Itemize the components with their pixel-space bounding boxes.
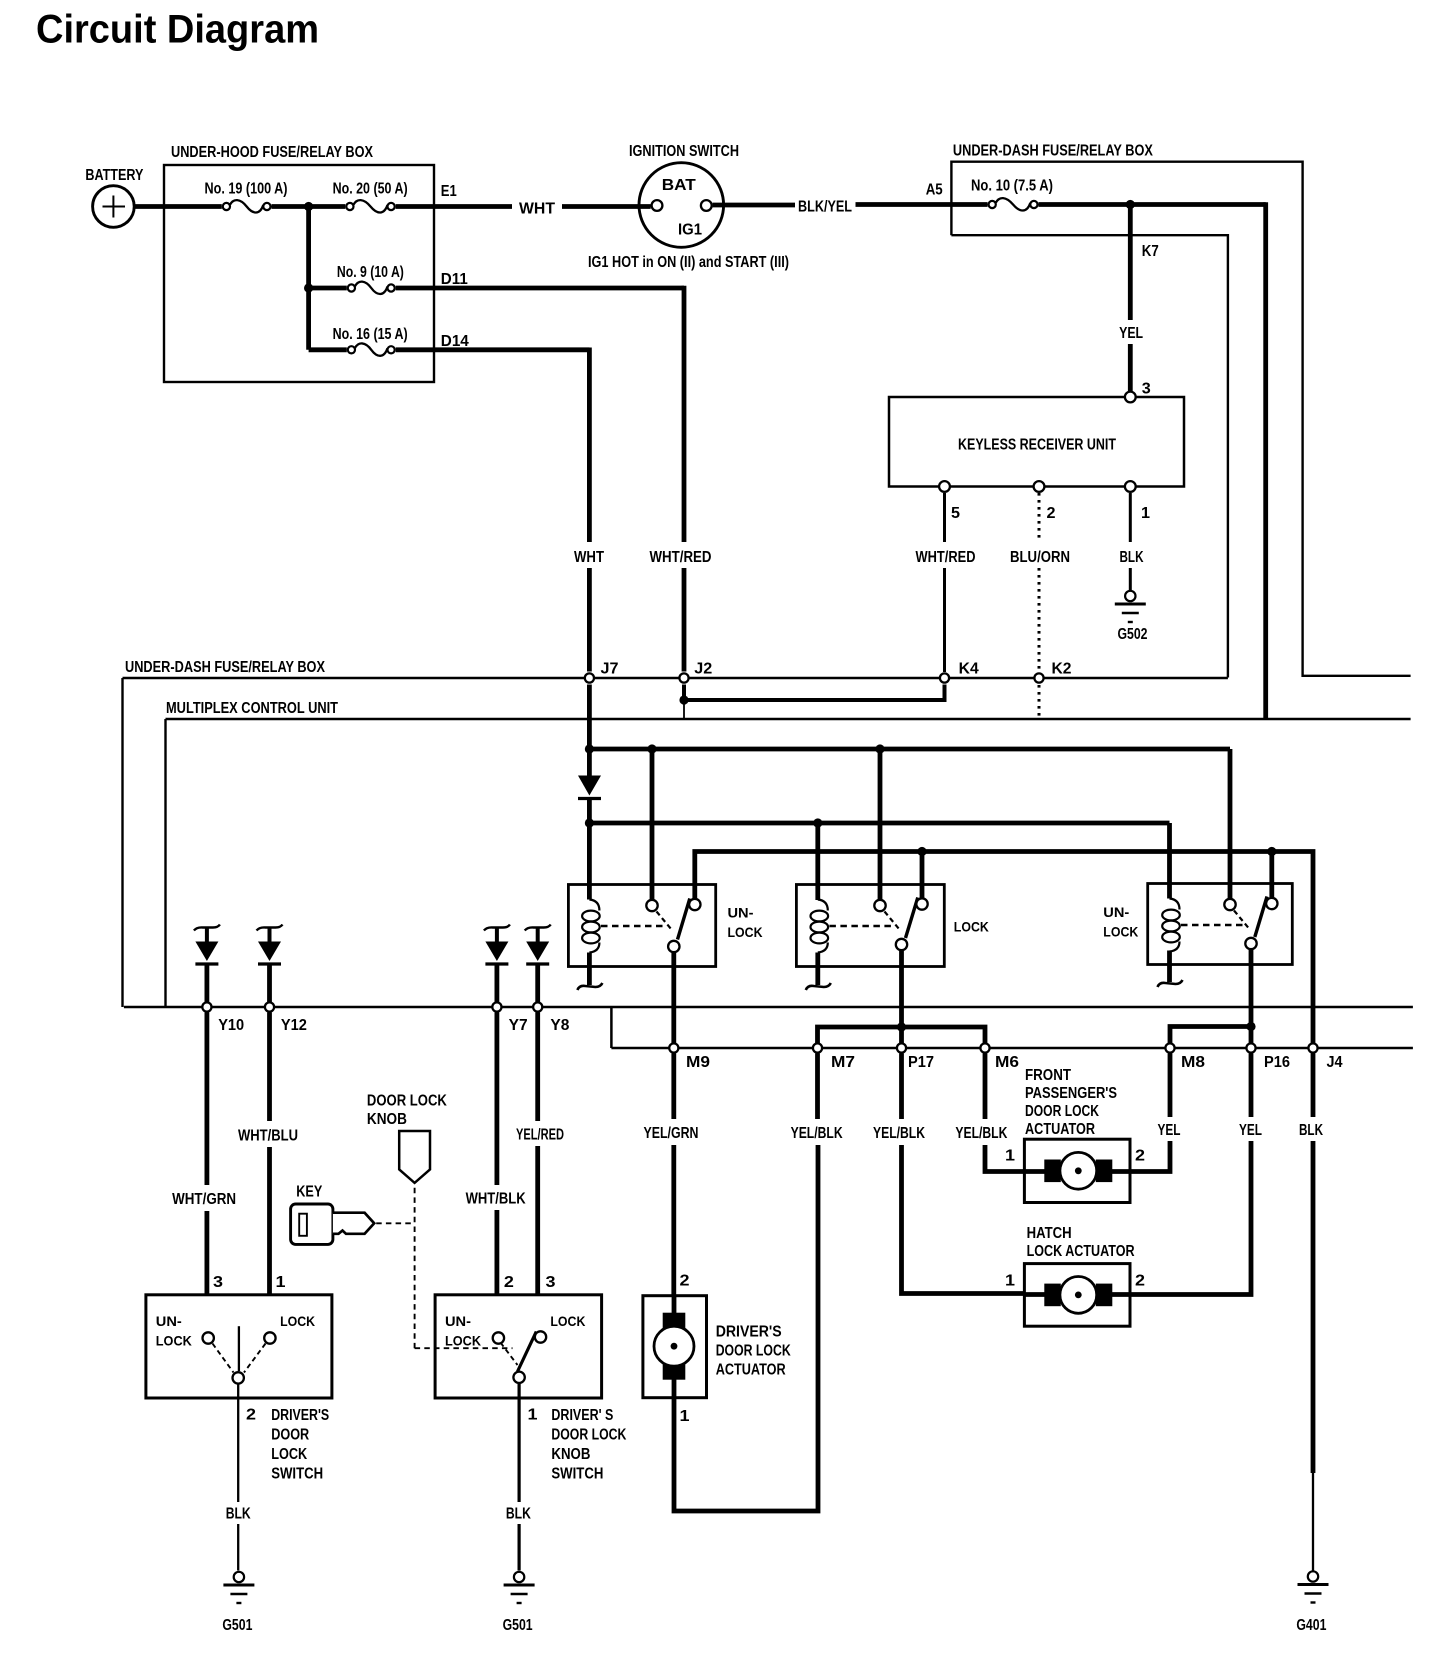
svg-text:WHT/RED: WHT/RED [916,549,976,566]
relay UNLOCK-1 mid contact [646,900,657,911]
svg-text:J4: J4 [1327,1054,1343,1071]
svg-text:No. 19 (100 A): No. 19 (100 A) [205,181,288,198]
junction dot bus851 relay2 right [917,847,926,856]
svg-text:UNDER-HOOD FUSE/RELAY BOX: UNDER-HOOD FUSE/RELAY BOX [171,144,374,161]
wire trunk to fuse 9 [309,286,347,291]
svg-text:D11: D11 [441,271,468,288]
relay UNLOCK-1 arm [678,899,690,940]
chassis ground relay2 [806,983,831,990]
under-dash box outline top-right [951,162,1410,676]
svg-text:YEL: YEL [1158,1122,1181,1139]
junction dot K7 tap [1126,200,1135,209]
connector K4 [940,673,949,682]
connector M6 [980,1043,989,1052]
svg-text:UN-: UN- [728,906,754,921]
svg-text:K4: K4 [959,661,979,678]
relay UNLOCK-2 right contact [1266,898,1277,909]
hatch lock actuator motor [1024,1292,1046,1297]
svg-text:WHT: WHT [574,549,604,566]
front passenger's door lock actuator box [1024,1139,1130,1202]
wire M6 down YEL/BLK [983,1054,988,1120]
wire relay3 mid contact up [1228,749,1233,899]
svg-text:LOCK: LOCK [445,1333,481,1348]
junction dot fuse 9 tap [304,283,313,292]
diode at Y10 [194,925,220,931]
connector K2 [1034,673,1043,682]
svg-text:Circuit Diagram: Circuit Diagram [36,8,319,52]
relay UNLOCK-2 box [1148,884,1293,965]
switch1 contact unlock [203,1332,214,1343]
switch1 dashed arms [213,1344,234,1373]
chassis ground relay1 [577,983,602,990]
fuse No.10 [989,201,996,208]
svg-text:LOCK: LOCK [550,1314,585,1329]
wire P16 down YEL to hatch pin2 [1249,1054,1254,1118]
svg-text:M8: M8 [1181,1054,1205,1071]
svg-text:DRIVER'S: DRIVER'S [271,1407,329,1424]
relay UNLOCK-1 coil ground wire [587,953,592,986]
svg-text:SWITCH: SWITCH [551,1466,603,1483]
svg-text:YEL/BLK: YEL/BLK [955,1125,1008,1142]
chassis ground relay3 [1158,980,1183,987]
connector J2 [679,673,688,682]
relay UNLOCK-2 coil ground wire [1167,951,1172,983]
switch2 dashed arm [501,1343,518,1365]
connector J7 [585,673,594,682]
svg-text:LOCK: LOCK [1103,925,1138,940]
connector P17 [897,1043,906,1052]
wire fuse 10 to YEL corner [1039,202,1266,207]
svg-text:UN-: UN- [156,1314,182,1329]
svg-text:KNOB: KNOB [551,1446,590,1463]
door lock knob symbol [399,1131,430,1183]
wire IG1 to BLK/YEL [713,203,795,208]
svg-text:No. 9 (10 A): No. 9 (10 A) [337,264,404,281]
junction dot bus749 relay1 mid [647,744,656,753]
svg-text:M9: M9 [686,1054,710,1071]
svg-text:DRIVER' S: DRIVER' S [551,1407,613,1424]
svg-text:DOOR LOCK: DOOR LOCK [716,1343,792,1360]
relay UNLOCK-1 bottom contact [668,941,679,952]
svg-text:3: 3 [546,1274,556,1291]
svg-text:G501: G501 [222,1617,252,1634]
svg-text:WHT: WHT [519,201,556,218]
connector Y7 [492,1002,501,1011]
relay LOCK mid contact [874,900,885,911]
boundary step down [610,1007,613,1048]
svg-text:2: 2 [1135,1273,1145,1290]
bridge M8 to P16 [1170,1027,1251,1049]
svg-text:Y7: Y7 [509,1017,528,1034]
diode at Y12 [257,925,283,931]
relay LOCK arm [906,898,918,939]
wire fuse trunk down [306,207,311,350]
relay UNLOCK-2 coil [1170,899,1180,910]
connector J4 [1308,1043,1317,1052]
svg-text:WHT/BLK: WHT/BLK [466,1191,527,1208]
svg-text:WHT/RED: WHT/RED [650,549,712,566]
keyless receiver unit box [889,397,1184,487]
svg-text:P16: P16 [1264,1054,1290,1071]
wire K7 down to keyless receiver [1128,205,1133,321]
svg-text:WHT/GRN: WHT/GRN [172,1191,236,1208]
wire J7 feed to bus823 [587,800,592,900]
svg-text:BLU/ORN: BLU/ORN [1010,549,1070,566]
terminal 2 [1034,481,1045,492]
wire J2 jumper to K4 [684,685,945,701]
relay UNLOCK-1 coil [589,900,599,911]
svg-text:UN-: UN- [1103,905,1129,920]
multiplex left edge [164,719,166,1007]
multiplex bottom boundary line5 [124,1006,1413,1009]
svg-text:UNDER-DASH FUSE/RELAY BOX: UNDER-DASH FUSE/RELAY BOX [953,143,1154,160]
relay LOCK right contact [916,898,927,909]
wire J4 down BLK to G401 [1311,1054,1316,1118]
svg-text:IG1 HOT in ON (II) and START (: IG1 HOT in ON (II) and START (III) [588,254,789,271]
svg-text:BAT: BAT [662,177,697,194]
svg-text:HATCH: HATCH [1027,1225,1072,1242]
svg-text:KEYLESS RECEIVER UNIT: KEYLESS RECEIVER UNIT [958,437,1116,454]
connector row line [611,1047,1413,1050]
switch2 common contact [513,1372,524,1383]
wire Y12 down WHT/BLU [267,1013,272,1122]
svg-text:J7: J7 [601,661,619,678]
terminal 5 [939,481,950,492]
svg-text:BLK: BLK [506,1506,532,1523]
svg-text:IGNITION SWITCH: IGNITION SWITCH [629,143,739,160]
svg-text:KNOB: KNOB [367,1111,407,1128]
bus line lock y851 [695,852,1313,1054]
ground G502 [1125,591,1135,601]
svg-text:5: 5 [951,505,960,522]
wire Y7 down WHT/BLK [494,1013,499,1186]
svg-text:1: 1 [680,1408,690,1425]
svg-text:Y10: Y10 [218,1017,244,1034]
wire fuse 19 to fuse 20 [272,204,346,209]
svg-text:J2: J2 [694,661,712,678]
svg-text:UNDER-DASH FUSE/RELAY BOX: UNDER-DASH FUSE/RELAY BOX [125,659,326,676]
dashed link key to knob line [376,1222,414,1224]
junction dot bus851 relay3 right [1267,847,1276,856]
svg-text:2: 2 [1135,1148,1145,1165]
relay UNLOCK-1 dashed link [601,925,664,927]
wire P17 down YEL/BLK [899,1054,904,1120]
key symbol [291,1204,333,1244]
svg-text:A5: A5 [926,182,943,199]
switch1 contact lock [264,1332,275,1343]
connector Y12 [265,1002,274,1011]
svg-text:BLK: BLK [1120,549,1145,566]
wire BLK keyless 1 to ground [1129,493,1132,542]
svg-text:2: 2 [504,1274,514,1291]
svg-text:G501: G501 [503,1617,533,1634]
door lock knob switch box [435,1295,601,1398]
svg-text:WHT/BLU: WHT/BLU [238,1128,298,1145]
switch2 contact lock [535,1331,546,1342]
junction dot bus823 relay2 coil [813,818,822,827]
wire E1 to ignition switch [396,204,512,209]
diode at Y7 [484,925,510,931]
svg-text:3: 3 [213,1274,223,1291]
under-dash boundary line [123,677,1228,679]
dashed link into knob switch [415,1347,513,1349]
relay UNLOCK-2 mid contact [1224,899,1235,910]
connector M7 [813,1043,822,1052]
svg-text:YEL/GRN: YEL/GRN [644,1125,699,1142]
wire relay2 coil up [815,823,820,900]
wire M9 down YEL/GRN [671,1054,676,1120]
svg-text:BATTERY: BATTERY [85,167,144,184]
connector M8 [1165,1043,1174,1052]
wire relay1 output to M9 [671,953,676,1053]
svg-text:2: 2 [1047,505,1056,522]
svg-text:BLK: BLK [226,1506,252,1523]
junction dot bus749 relay2 mid [875,744,884,753]
under-hood fuse/relay box outline [164,165,434,382]
relay UNLOCK-2 bottom contact [1245,938,1256,949]
svg-text:No. 20 (50 A): No. 20 (50 A) [333,181,408,198]
relay LOCK coil ground wire [815,953,820,986]
svg-text:YEL: YEL [1119,325,1143,342]
svg-text:1: 1 [1005,1148,1015,1165]
svg-text:No. 10 (7.5 A): No. 10 (7.5 A) [971,178,1053,195]
svg-text:DOOR LOCK: DOOR LOCK [551,1427,627,1444]
connector Y8 [533,1002,542,1011]
wire driver actuator to M7 bottom U [674,1145,818,1511]
svg-text:ACTUATOR: ACTUATOR [716,1362,786,1379]
junction dot bus823 at J7 wire [585,818,594,827]
multiplex top boundary [166,718,1411,720]
ground G401 [1308,1571,1318,1581]
wire BLU/ORN dotted keyless 2 to K2 [1038,493,1041,542]
wire M8 down YEL to actuator pin2 [1168,1054,1173,1118]
ignition switch body [639,163,724,248]
junction dot bridge P17 [897,1022,906,1031]
under-dash box bottom edge [951,235,1228,677]
svg-text:LOCK: LOCK [280,1314,315,1329]
svg-text:BLK/YEL: BLK/YEL [798,199,852,216]
junction dot bus749 at J7 wire [585,744,594,753]
bus line coil y823 [589,821,1169,826]
svg-text:E1: E1 [441,183,457,200]
wire J7 into multiplex [587,685,592,776]
svg-text:FRONT: FRONT [1025,1067,1071,1084]
battery B1 [93,186,135,228]
terminal 3 [1125,392,1136,403]
bus line unlock y749 [589,747,1230,752]
svg-text:LOCK: LOCK [954,920,989,935]
svg-text:LOCK ACTUATOR: LOCK ACTUATOR [1027,1243,1135,1260]
svg-text:YEL/BLK: YEL/BLK [791,1125,844,1142]
diode at Y8 [525,925,551,931]
wire Y10 down WHT/GRN [204,1013,209,1186]
junction dot J2 jumper [679,695,688,704]
wire Y8 down YEL/RED [535,1013,540,1122]
switch2 contact unlock [493,1332,504,1343]
hatch lock actuator box [1024,1264,1130,1327]
driver's door lock switch box [146,1295,332,1398]
svg-text:BLK: BLK [1299,1122,1324,1139]
fuse No.16 [348,346,355,353]
svg-text:DOOR: DOOR [271,1427,309,1444]
svg-text:IG1: IG1 [678,222,702,239]
wire relay3 right contact up [1269,852,1274,898]
ignition terminal IG1 [701,200,712,211]
ignition terminal BAT [652,200,663,211]
svg-text:1: 1 [1005,1273,1015,1290]
svg-text:ACTUATOR: ACTUATOR [1025,1121,1095,1138]
fuse No.20 [346,203,353,210]
wire D14 [396,347,590,352]
svg-text:DRIVER'S: DRIVER'S [716,1324,782,1341]
fuse No.9 [348,284,355,291]
wire WHT/RED vertical D11 to J2 [682,286,687,542]
svg-text:YEL/BLK: YEL/BLK [873,1125,926,1142]
svg-text:YEL: YEL [1239,1122,1262,1139]
svg-text:P17: P17 [908,1054,934,1071]
svg-text:1: 1 [1141,505,1150,522]
wire relay2 right contact up [920,852,925,899]
wire relay2 mid contact up [878,749,883,900]
svg-text:1: 1 [528,1407,538,1424]
relay UNLOCK-1 right contact [689,899,700,910]
svg-text:3: 3 [1142,381,1151,398]
svg-text:M7: M7 [831,1054,855,1071]
wire YEL branch down to multiplex unit [1263,202,1268,719]
connector M9 [669,1043,678,1052]
svg-text:1: 1 [276,1274,286,1291]
under-dash left edge [121,678,123,1007]
wire switch1 pin2 to ground [237,1384,239,1502]
svg-text:2: 2 [680,1273,690,1290]
relay UNLOCK-1 box [568,885,715,967]
svg-text:M6: M6 [995,1054,1019,1071]
svg-text:K7: K7 [1142,243,1159,260]
wire WHT vertical D14 to J7 [587,348,592,543]
relay LOCK bottom contact [896,939,907,950]
wire relay3 output to P16 [1249,950,1254,1053]
switch1 stem [238,1326,240,1371]
wire D11 [396,286,684,291]
svg-text:No. 16 (15 A): No. 16 (15 A) [333,326,408,343]
svg-text:DOOR LOCK: DOOR LOCK [367,1093,448,1110]
svg-text:2: 2 [246,1407,256,1424]
relay UNLOCK-2 arm [1255,897,1267,938]
svg-text:SWITCH: SWITCH [271,1466,323,1483]
driver's door lock actuator motor [672,1296,677,1318]
svg-text:Y12: Y12 [281,1017,307,1034]
switch1 common contact [233,1372,244,1383]
svg-text:Y8: Y8 [550,1017,569,1034]
svg-text:LOCK: LOCK [728,925,763,940]
fuse No.19 [223,203,230,210]
svg-text:LOCK: LOCK [156,1333,192,1348]
wire battery to fuse 19 [134,204,222,209]
svg-text:LOCK: LOCK [271,1446,308,1463]
connector P16 [1246,1043,1255,1052]
relay LOCK box [796,885,944,967]
front passenger's door lock actuator motor [1024,1169,1046,1174]
wire relay2 output to P17 [899,951,904,1053]
svg-text:K2: K2 [1052,661,1072,678]
svg-text:DOOR LOCK: DOOR LOCK [1025,1103,1100,1120]
svg-text:MULTIPLEX CONTROL UNIT: MULTIPLEX CONTROL UNIT [166,700,338,717]
connector Y10 [202,1002,211,1011]
switch2 arm [518,1332,537,1372]
svg-text:KEY: KEY [296,1184,323,1201]
relay LOCK dashed link [829,925,892,927]
dashed link knob down [414,1188,416,1349]
driver's door lock actuator box [643,1296,707,1398]
diode D in J7 feed [578,776,601,796]
wire switch2 pin1 to ground [517,1384,520,1502]
wire relay3 coil up [1167,823,1172,899]
ground G501 right [514,1572,524,1582]
svg-text:YEL/RED: YEL/RED [516,1127,564,1144]
wire trunk to fuse 16 [309,347,347,352]
svg-text:G502: G502 [1118,626,1148,643]
wire relay1 mid contact up [650,749,655,900]
svg-text:UN-: UN- [445,1314,471,1329]
junction dot bridge P16 [1246,1022,1255,1031]
relay LOCK coil [818,900,828,911]
svg-text:D14: D14 [441,333,469,350]
svg-text:G401: G401 [1296,1617,1326,1634]
relay UNLOCK-2 dashed link [1181,924,1244,926]
ground G501 left [234,1572,244,1582]
junction dot battery feed [304,202,313,211]
bridge M7 to M6 [818,1027,986,1048]
svg-text:PASSENGER'S: PASSENGER'S [1025,1085,1117,1102]
wire J2 stub into multiplex [683,700,685,718]
wire WHT/RED keyless 5 to K4 [943,493,946,542]
terminal 1 [1125,481,1136,492]
